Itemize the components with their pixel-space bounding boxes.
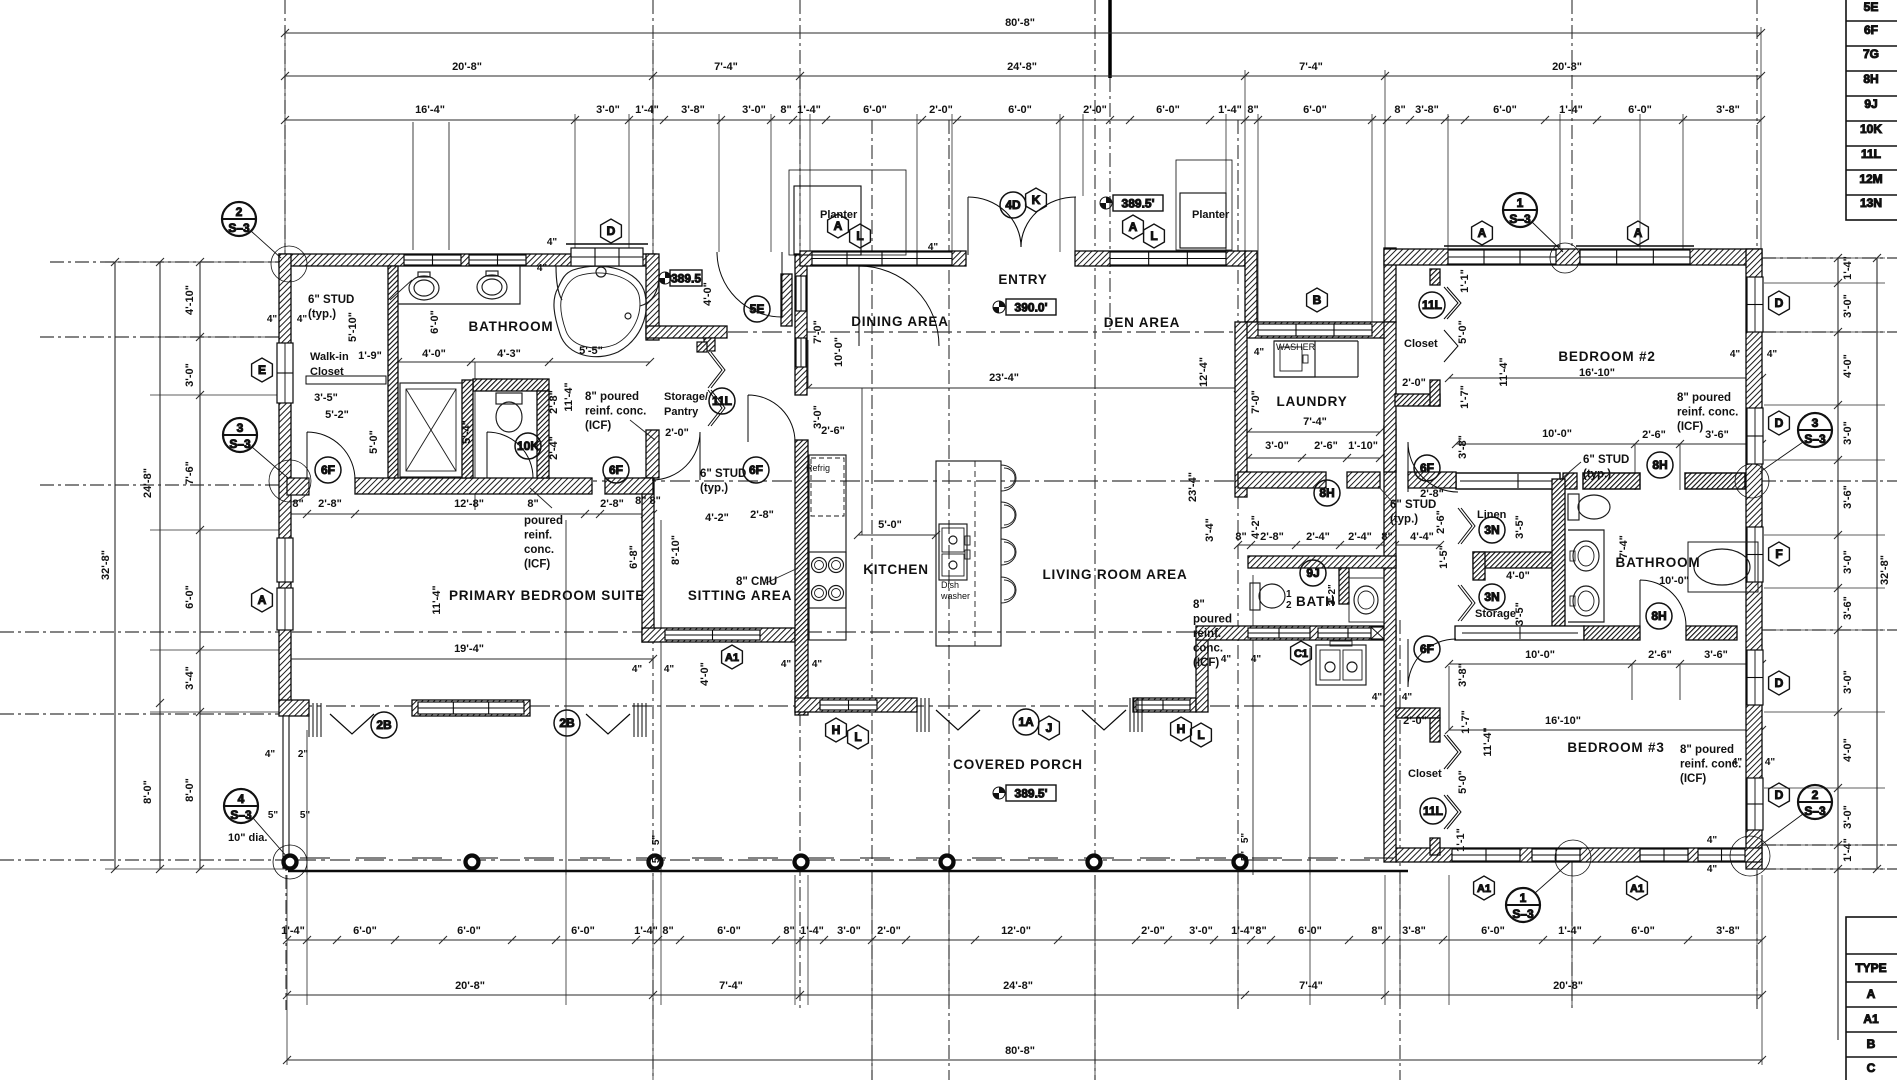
wall halfbath north bbox=[1248, 556, 1396, 568]
svg-text:1: 1 bbox=[1517, 196, 1524, 210]
svg-text:3'-0": 3'-0" bbox=[1265, 440, 1289, 452]
svg-text:2'-6": 2'-6" bbox=[1435, 510, 1447, 534]
wall sitting west bbox=[642, 478, 654, 642]
svg-text:4": 4" bbox=[267, 314, 278, 325]
svg-text:A: A bbox=[1867, 987, 1876, 1001]
svg-text:5'-0": 5'-0" bbox=[368, 430, 380, 454]
svg-text:A: A bbox=[1129, 220, 1138, 234]
svg-text:5'-5": 5'-5" bbox=[579, 345, 603, 357]
svg-text:389.5: 389.5 bbox=[671, 272, 701, 286]
svg-text:4": 4" bbox=[1732, 757, 1743, 768]
svg-text:D: D bbox=[1775, 676, 1784, 690]
window bed3 south 1 bbox=[1452, 849, 1520, 861]
svg-text:4'-0": 4'-0" bbox=[699, 662, 711, 686]
svg-text:16'-4": 16'-4" bbox=[415, 104, 445, 116]
range bbox=[809, 552, 846, 608]
dim left column inner bbox=[199, 262, 201, 869]
hex tag L at 1201,735 bbox=[1191, 723, 1212, 747]
svg-text:6'-0": 6'-0" bbox=[1008, 104, 1032, 116]
svg-text:8" poured: 8" poured bbox=[1680, 744, 1734, 756]
wall toilet room top bbox=[473, 379, 549, 391]
svg-text:8H: 8H bbox=[1651, 609, 1666, 623]
svg-text:2'-0": 2'-0" bbox=[1403, 715, 1427, 727]
svg-text:4": 4" bbox=[265, 749, 276, 760]
door den bbox=[859, 266, 939, 346]
wall bed2 south 3 hatched bbox=[1685, 473, 1745, 489]
svg-text:8": 8" bbox=[1247, 104, 1258, 116]
porch column x655 bbox=[649, 856, 662, 869]
svg-text:6'-0": 6'-0" bbox=[571, 925, 595, 937]
wall bed2 closet stub bbox=[1430, 269, 1440, 285]
tag 6F at 1427,468 bbox=[1414, 455, 1440, 481]
svg-text:10'-0": 10'-0" bbox=[1525, 649, 1555, 661]
svg-text:4'-4": 4'-4" bbox=[1410, 531, 1434, 543]
wall bed3 closet stub bbox=[1430, 838, 1440, 855]
svg-text:2: 2 bbox=[1812, 788, 1819, 802]
svg-text:4": 4" bbox=[297, 314, 308, 325]
planter right bbox=[1180, 193, 1226, 248]
wall bath divider bbox=[388, 266, 398, 494]
wall kitchen west CMU bbox=[795, 440, 808, 715]
hex tag J at 1049,728 bbox=[1039, 716, 1060, 740]
wall bath2 south hatched bbox=[1584, 626, 1640, 640]
window living south 2 bbox=[1318, 628, 1378, 638]
storage bifold doors bbox=[708, 352, 722, 388]
folding door primary left bbox=[308, 703, 310, 737]
svg-text:10'-0": 10'-0" bbox=[833, 337, 845, 367]
dim dining 23-4 bbox=[808, 387, 1238, 389]
tag 10K at 528,446 bbox=[515, 433, 541, 459]
wall laundry north bbox=[1245, 322, 1385, 338]
section ref 1/S-3 at 1523,905 bbox=[1506, 888, 1540, 922]
porch column x801 bbox=[795, 856, 808, 869]
window top wall vanity 1 bbox=[404, 255, 461, 265]
svg-text:Closet: Closet bbox=[1404, 338, 1438, 350]
svg-text:3'-0": 3'-0" bbox=[742, 104, 766, 116]
wall hall-bed3 west bbox=[1384, 426, 1396, 862]
svg-text:BEDROOM #2: BEDROOM #2 bbox=[1558, 349, 1655, 364]
svg-text:11'-4": 11'-4" bbox=[1498, 357, 1510, 386]
svg-text:H: H bbox=[832, 723, 841, 737]
wall laundry south 1 bbox=[1238, 472, 1326, 488]
vertical grid line x285 bbox=[284, 0, 286, 255]
svg-text:4": 4" bbox=[537, 263, 548, 274]
svg-text:Closet: Closet bbox=[310, 366, 344, 378]
wall bathroom east bbox=[646, 254, 659, 340]
svg-text:80'-8": 80'-8" bbox=[1005, 1045, 1035, 1057]
svg-text:2'-8": 2'-8" bbox=[548, 390, 560, 414]
svg-text:D: D bbox=[1775, 416, 1784, 430]
tag 11L at 722,401 bbox=[709, 388, 735, 414]
svg-text:4": 4" bbox=[1730, 349, 1741, 360]
wall shower right band bbox=[462, 380, 473, 478]
dim bath south row bbox=[287, 513, 653, 515]
left extension lines bbox=[105, 261, 279, 263]
svg-text:12'-8": 12'-8" bbox=[454, 498, 484, 510]
toilet master bbox=[496, 393, 522, 404]
svg-text:1: 1 bbox=[1286, 589, 1292, 600]
wall stub entry hall bbox=[781, 274, 792, 326]
svg-text:8": 8" bbox=[1381, 531, 1392, 543]
right extension lines bbox=[1764, 257, 1885, 259]
sink bath2 b bbox=[1573, 586, 1599, 616]
svg-text:2B: 2B bbox=[559, 716, 575, 730]
folding door living left bbox=[916, 698, 918, 732]
svg-text:16'-10": 16'-10" bbox=[1579, 367, 1615, 379]
svg-text:19'-4": 19'-4" bbox=[454, 643, 484, 655]
dim right 32-8 bbox=[1876, 258, 1878, 869]
svg-text:A1: A1 bbox=[1863, 1012, 1879, 1026]
wall bed2 south 2 hatched bbox=[1583, 473, 1640, 489]
svg-text:Storage: Storage bbox=[1475, 608, 1516, 620]
svg-text:1'-4": 1'-4" bbox=[634, 925, 658, 937]
horizontal grid line y714 bbox=[0, 713, 279, 715]
hex tag D at 1779,303 bbox=[1769, 291, 1790, 315]
svg-text:3'-4": 3'-4" bbox=[184, 666, 196, 690]
horizontal grid line y262 left margin bbox=[50, 261, 279, 263]
svg-text:8": 8" bbox=[780, 104, 791, 116]
svg-text:A: A bbox=[258, 593, 267, 607]
section ref 2/S-3 at 1815,802 bbox=[1798, 785, 1832, 819]
svg-text:5E: 5E bbox=[750, 302, 765, 316]
svg-text:6'-0": 6'-0" bbox=[1493, 104, 1517, 116]
svg-text:6'-8": 6'-8" bbox=[628, 545, 640, 569]
storage bifold bbox=[1458, 585, 1472, 621]
svg-text:Refrig: Refrig bbox=[806, 463, 830, 473]
section cut mark top bbox=[1108, 0, 1112, 78]
svg-text:8": 8" bbox=[527, 498, 538, 510]
svg-text:S–3: S–3 bbox=[1512, 907, 1534, 921]
svg-text:TYPE: TYPE bbox=[1855, 961, 1886, 975]
svg-text:COVERED PORCH: COVERED PORCH bbox=[953, 757, 1083, 772]
svg-text:4": 4" bbox=[812, 659, 823, 670]
hex tag A at 262,600 bbox=[252, 588, 273, 612]
svg-text:LAUNDRY: LAUNDRY bbox=[1276, 394, 1347, 409]
vertical grid line x653 bbox=[652, 0, 654, 330]
svg-text:12M: 12M bbox=[1859, 172, 1882, 186]
svg-text:3'-5": 3'-5" bbox=[314, 392, 338, 404]
window bed2 top 1 bbox=[1448, 250, 1556, 264]
svg-text:1'-10": 1'-10" bbox=[1348, 440, 1378, 452]
svg-text:5'-4": 5'-4" bbox=[461, 420, 473, 444]
svg-text:Storage/: Storage/ bbox=[664, 391, 708, 403]
svg-text:4": 4" bbox=[664, 664, 675, 675]
dim laundry 7-4 bbox=[1248, 431, 1380, 433]
planter left bbox=[794, 186, 861, 255]
svg-text:4": 4" bbox=[1254, 347, 1265, 358]
svg-text:7'-4": 7'-4" bbox=[719, 980, 743, 992]
laundry counter bbox=[1274, 340, 1358, 342]
svg-text:2'-6": 2'-6" bbox=[1314, 440, 1338, 452]
svg-text:6'-0": 6'-0" bbox=[1298, 925, 1322, 937]
svg-text:S–3: S–3 bbox=[1804, 804, 1826, 818]
svg-text:conc.: conc. bbox=[1193, 643, 1223, 655]
svg-text:6F: 6F bbox=[749, 463, 763, 477]
svg-text:6" STUD: 6" STUD bbox=[1390, 499, 1436, 511]
wall bath south east piece bbox=[605, 478, 653, 494]
entry jamb lines bbox=[967, 197, 969, 255]
tag 5E at 757,309 bbox=[744, 296, 770, 322]
dim bath vanity row bbox=[398, 361, 650, 363]
svg-text:2'-0": 2'-0" bbox=[1402, 377, 1426, 389]
svg-text:6'-0": 6'-0" bbox=[429, 310, 441, 334]
svg-text:D: D bbox=[607, 224, 616, 238]
wall hall east piece bbox=[646, 430, 659, 478]
svg-text:5": 5" bbox=[1240, 851, 1251, 862]
window kitchen south bbox=[820, 700, 877, 710]
svg-text:11'-4": 11'-4" bbox=[1482, 727, 1494, 756]
svg-text:DINING AREA: DINING AREA bbox=[851, 314, 949, 329]
svg-text:7'-0": 7'-0" bbox=[1250, 390, 1262, 414]
svg-text:10K: 10K bbox=[517, 439, 539, 453]
dim halfbath row bbox=[1238, 544, 1440, 546]
svg-text:3'-0": 3'-0" bbox=[1189, 925, 1213, 937]
folding door primary right bbox=[586, 714, 630, 734]
svg-text:4": 4" bbox=[1402, 692, 1413, 703]
svg-text:2'-6": 2'-6" bbox=[1642, 429, 1666, 441]
svg-text:1'-7": 1'-7" bbox=[1459, 385, 1471, 409]
window entry west 1 bbox=[796, 276, 806, 311]
tag 6F at 328,470 bbox=[315, 457, 341, 483]
svg-text:32'-8": 32'-8" bbox=[100, 550, 112, 580]
svg-text:(typ.): (typ.) bbox=[308, 309, 336, 321]
svg-text:2'-0": 2'-0" bbox=[665, 427, 689, 439]
svg-text:8" poured: 8" poured bbox=[585, 391, 639, 403]
svg-text:4'-0": 4'-0" bbox=[422, 348, 446, 360]
svg-text:8H: 8H bbox=[1863, 72, 1878, 86]
vertical grid line x1572 bbox=[1571, 0, 1573, 250]
wall bed2 south 1 bbox=[1456, 473, 1560, 489]
hex tag A at 1482,233 bbox=[1472, 221, 1493, 245]
window entry top right bbox=[1110, 252, 1226, 265]
door bath hall bbox=[652, 432, 700, 480]
dim primary 19-4 bbox=[287, 658, 653, 660]
svg-text:1'-4": 1'-4" bbox=[1231, 925, 1255, 937]
svg-text:389.5': 389.5' bbox=[1122, 197, 1155, 211]
svg-text:2: 2 bbox=[1286, 600, 1292, 611]
tag 9J at 1313,573 bbox=[1300, 560, 1326, 586]
window sitting south A1 bbox=[665, 630, 760, 640]
wall bath south bbox=[355, 478, 592, 494]
tag 3N at 1492,597 bbox=[1479, 584, 1505, 610]
svg-text:6" STUD: 6" STUD bbox=[700, 468, 746, 480]
wall bed3 closet north bbox=[1396, 708, 1440, 718]
porch slab edge bbox=[288, 870, 1408, 872]
svg-text:L: L bbox=[1150, 229, 1157, 243]
svg-text:L: L bbox=[1197, 728, 1204, 742]
kitchen island bbox=[936, 461, 1001, 646]
svg-text:4'-0": 4'-0" bbox=[702, 282, 714, 306]
porch column x472 bbox=[466, 856, 479, 869]
hex tag A at 1133,227 bbox=[1123, 215, 1144, 239]
dim right column bbox=[1837, 258, 1839, 1040]
svg-text:24'-8": 24'-8" bbox=[1007, 61, 1037, 73]
svg-text:6'-0": 6'-0" bbox=[1156, 104, 1180, 116]
hex tag L at 858,737 bbox=[848, 725, 869, 749]
svg-text:S–3: S–3 bbox=[230, 808, 252, 822]
svg-text:conc.: conc. bbox=[524, 544, 554, 556]
svg-text:S–3: S–3 bbox=[1509, 212, 1531, 226]
svg-text:7'-0": 7'-0" bbox=[812, 320, 824, 344]
horizontal grid line y860 porch bbox=[0, 859, 286, 861]
svg-text:1'-4": 1'-4" bbox=[1218, 104, 1242, 116]
window D top wall bbox=[571, 248, 643, 266]
window D right 1 bbox=[1747, 277, 1763, 332]
svg-text:Dish: Dish bbox=[941, 580, 959, 590]
svg-text:(ICF): (ICF) bbox=[585, 420, 611, 432]
svg-text:10" dia.: 10" dia. bbox=[228, 832, 267, 844]
dim bed2 16-10 bbox=[1449, 377, 1762, 379]
elevation marker 389.5 at 665,278 bbox=[659, 272, 671, 284]
svg-text:6F: 6F bbox=[1864, 23, 1878, 37]
svg-text:Walk-in: Walk-in bbox=[310, 351, 349, 363]
dim bed2 10-0 row bbox=[1456, 443, 1762, 445]
window D right 2 bbox=[1747, 408, 1763, 464]
svg-text:9J: 9J bbox=[1306, 566, 1319, 580]
tub bath2 bbox=[1688, 542, 1758, 592]
tag 11L at 1433,811 bbox=[1420, 798, 1446, 824]
crosshatch block living south bbox=[1371, 627, 1384, 639]
tag 3N at 1492,530 bbox=[1479, 517, 1505, 543]
svg-text:4'-2": 4'-2" bbox=[705, 512, 729, 524]
svg-text:2B: 2B bbox=[376, 718, 392, 732]
window primary south bbox=[418, 702, 524, 714]
washer bbox=[1274, 341, 1315, 377]
svg-text:3'-5": 3'-5" bbox=[1514, 515, 1526, 539]
hex tag B at 1317,300 bbox=[1307, 288, 1328, 312]
svg-text:reinf. conc.: reinf. conc. bbox=[585, 406, 646, 418]
bath wall corner jog bbox=[287, 478, 309, 495]
bed3 closet bifold upper bbox=[1444, 735, 1458, 769]
svg-text:2'-0": 2'-0" bbox=[1083, 104, 1107, 116]
svg-text:Pantry: Pantry bbox=[664, 406, 699, 418]
svg-text:20'-8": 20'-8" bbox=[455, 980, 485, 992]
wall bath2 south right bbox=[1686, 626, 1737, 640]
section ref 4/S-3 at 241,806 bbox=[224, 789, 258, 823]
bed2 closet bifold lower bbox=[1444, 330, 1458, 362]
dim bed3 16-10 bbox=[1449, 729, 1762, 731]
tag 4D at 1013,205 bbox=[1000, 192, 1026, 218]
svg-text:1'-7": 1'-7" bbox=[1460, 710, 1472, 734]
svg-text:3'-0": 3'-0" bbox=[1842, 421, 1854, 445]
svg-text:6F: 6F bbox=[1420, 461, 1434, 475]
svg-text:A1: A1 bbox=[1477, 883, 1491, 895]
svg-text:1'-5": 1'-5" bbox=[1438, 545, 1450, 569]
svg-text:6F: 6F bbox=[609, 463, 623, 477]
window bed3 south 2 bbox=[1532, 849, 1580, 861]
island sink dishwasher bbox=[939, 524, 967, 580]
lintel bed2 top 1 bbox=[1444, 245, 1560, 247]
svg-text:6F: 6F bbox=[1420, 642, 1434, 656]
svg-text:13N: 13N bbox=[1860, 196, 1882, 210]
wall bath2 south left bbox=[1455, 626, 1584, 640]
svg-text:2'-6": 2'-6" bbox=[821, 425, 845, 437]
svg-text:8H: 8H bbox=[1652, 458, 1667, 472]
svg-text:4'-2": 4'-2" bbox=[1250, 515, 1262, 539]
svg-text:11L: 11L bbox=[712, 394, 732, 408]
dim top row2 bbox=[285, 75, 1761, 77]
entry walk arc right bbox=[1021, 197, 1076, 247]
svg-text:3'-8": 3'-8" bbox=[1716, 104, 1740, 116]
hex tag E at 262,370 bbox=[252, 358, 273, 382]
ring highlight at 289,264 bbox=[271, 246, 307, 282]
svg-text:7'-4": 7'-4" bbox=[1303, 416, 1327, 428]
wall kitchen south bbox=[795, 698, 917, 712]
svg-text:(ICF): (ICF) bbox=[524, 559, 550, 571]
table bottom right bbox=[1846, 917, 1897, 1082]
svg-text:3'-8": 3'-8" bbox=[1716, 925, 1740, 937]
svg-text:3N: 3N bbox=[1484, 523, 1499, 537]
ring highlight at 1750,856 bbox=[1730, 836, 1770, 876]
svg-text:1'-1": 1'-1" bbox=[1459, 269, 1471, 293]
svg-text:2'-8": 2'-8" bbox=[1260, 531, 1284, 543]
svg-text:3'-0": 3'-0" bbox=[1842, 805, 1854, 829]
hex tag H at 836,730 bbox=[826, 718, 847, 742]
svg-text:11L: 11L bbox=[1861, 147, 1881, 161]
svg-text:DEN AREA: DEN AREA bbox=[1104, 315, 1180, 330]
svg-text:4": 4" bbox=[928, 242, 939, 253]
svg-text:7'-4": 7'-4" bbox=[714, 61, 738, 73]
svg-text:3N: 3N bbox=[1484, 590, 1499, 604]
svg-text:8": 8" bbox=[1255, 925, 1266, 937]
svg-text:reinf.: reinf. bbox=[524, 530, 552, 542]
svg-text:D: D bbox=[1775, 296, 1784, 310]
lintel window D top bbox=[566, 243, 648, 245]
svg-text:1A: 1A bbox=[1018, 715, 1034, 729]
svg-text:2'-8": 2'-8" bbox=[750, 509, 774, 521]
svg-text:8'-0": 8'-0" bbox=[184, 778, 196, 802]
svg-text:4": 4" bbox=[1251, 654, 1262, 665]
svg-text:1'-4": 1'-4" bbox=[797, 104, 821, 116]
svg-text:1'-1": 1'-1" bbox=[1455, 828, 1467, 852]
top extension lines bbox=[284, 27, 286, 250]
svg-text:6" STUD: 6" STUD bbox=[1583, 454, 1629, 466]
hex tag K at 1036,200 bbox=[1026, 188, 1047, 212]
bed2 closet bifold bbox=[1444, 287, 1458, 319]
svg-text:5'-0": 5'-0" bbox=[1457, 320, 1469, 344]
section ref 3/S-3 at 240,435 bbox=[223, 418, 257, 452]
tag 8H at 1660,465 bbox=[1647, 452, 1673, 478]
svg-text:2'-4": 2'-4" bbox=[1306, 531, 1330, 543]
svg-text:11'-4": 11'-4" bbox=[431, 585, 443, 614]
wall primary south corner bbox=[279, 700, 309, 716]
svg-text:(typ.): (typ.) bbox=[1390, 514, 1418, 526]
vertical grid line x1400 bbox=[1399, 620, 1401, 1080]
svg-text:11'-4": 11'-4" bbox=[563, 382, 575, 411]
hex tag D at 1779,423 bbox=[1769, 411, 1790, 435]
svg-text:PRIMARY BEDROOM SUITE: PRIMARY BEDROOM SUITE bbox=[449, 588, 645, 603]
svg-text:1'-4": 1'-4" bbox=[635, 104, 659, 116]
bottom extension lines bbox=[286, 875, 288, 1065]
svg-text:KITCHEN: KITCHEN bbox=[863, 562, 929, 577]
svg-text:A1: A1 bbox=[1630, 883, 1644, 895]
svg-text:20'-8": 20'-8" bbox=[452, 61, 482, 73]
window D right 4 bbox=[1747, 778, 1763, 830]
svg-text:6'-0": 6'-0" bbox=[1631, 925, 1655, 937]
leader lines bbox=[390, 280, 1581, 583]
svg-text:2'-0": 2'-0" bbox=[929, 104, 953, 116]
svg-text:S–3: S–3 bbox=[229, 437, 251, 451]
tag 6F at 1427,649 bbox=[1414, 636, 1440, 662]
svg-text:3'-6": 3'-6" bbox=[1705, 429, 1729, 441]
svg-text:8": 8" bbox=[1394, 104, 1405, 116]
hex tag H at 1181,729 bbox=[1171, 717, 1192, 741]
wall primary south window section bbox=[412, 700, 530, 716]
svg-text:5": 5" bbox=[300, 810, 311, 821]
svg-text:3'-4": 3'-4" bbox=[1204, 518, 1216, 542]
tag 8H at 1659,616 bbox=[1646, 603, 1672, 629]
porch column x1094 bbox=[1088, 856, 1101, 869]
